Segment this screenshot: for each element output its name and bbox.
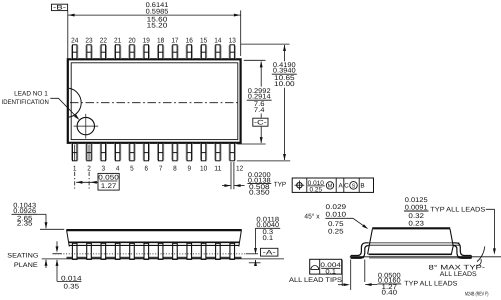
svg-text:-C-: -C- (254, 120, 267, 127)
svg-text:0.35: 0.35 (64, 283, 80, 290)
svg-text:4: 4 (116, 165, 120, 172)
svg-text:8: 8 (173, 165, 177, 172)
svg-text:13: 13 (229, 38, 236, 45)
svg-text:0.2914: 0.2914 (248, 94, 271, 101)
svg-text:0.23: 0.23 (408, 220, 424, 227)
svg-text:0.3940: 0.3940 (273, 68, 296, 75)
svg-text:0.75: 0.75 (328, 221, 344, 228)
svg-text:0.050: 0.050 (98, 175, 119, 182)
svg-text:IDENTIFICATION: IDENTIFICATION (2, 99, 49, 106)
svg-text:0.1: 0.1 (325, 269, 336, 276)
svg-text:M: M (328, 184, 333, 190)
svg-text:0.25: 0.25 (328, 229, 344, 236)
svg-text:6: 6 (145, 165, 149, 172)
svg-text:ALL LEADS: ALL LEADS (440, 271, 477, 278)
svg-text:0.0125: 0.0125 (405, 197, 428, 204)
svg-text:14: 14 (214, 38, 221, 45)
svg-text:20: 20 (128, 38, 135, 45)
svg-text:12: 12 (236, 165, 243, 172)
svg-text:S: S (352, 184, 356, 190)
svg-text:PLANE: PLANE (14, 262, 39, 269)
svg-text:5: 5 (130, 165, 134, 172)
svg-text:0.32: 0.32 (408, 213, 424, 220)
svg-text:10: 10 (200, 165, 207, 172)
svg-text:M24B (REV F): M24B (REV F) (465, 291, 489, 297)
svg-text:LEAD NO 1: LEAD NO 1 (14, 90, 48, 97)
svg-text:18: 18 (157, 38, 164, 45)
svg-text:15: 15 (200, 38, 207, 45)
svg-text:45° x: 45° x (304, 214, 320, 221)
svg-text:3: 3 (102, 165, 106, 172)
svg-text:21: 21 (114, 38, 121, 45)
svg-text:17: 17 (171, 38, 178, 45)
svg-text:1: 1 (73, 165, 77, 172)
svg-text:7: 7 (159, 165, 163, 172)
svg-text:23: 23 (85, 38, 92, 45)
svg-text:24: 24 (71, 38, 78, 45)
svg-text:A: A (338, 183, 343, 190)
svg-text:B: B (360, 183, 364, 190)
svg-text:9: 9 (187, 165, 191, 172)
svg-text:19: 19 (143, 38, 150, 45)
svg-text:SEATING: SEATING (7, 252, 38, 259)
svg-text:0.0091: 0.0091 (405, 205, 428, 212)
svg-text:0.014: 0.014 (61, 275, 82, 282)
svg-text:22: 22 (100, 38, 107, 45)
svg-text:ALL LEAD TIPS: ALL LEAD TIPS (289, 277, 343, 284)
svg-text:TYP ALL LEADS: TYP ALL LEADS (430, 207, 486, 214)
svg-text:15.20: 15.20 (147, 22, 168, 29)
svg-text:11: 11 (214, 165, 221, 172)
svg-text:0.350: 0.350 (249, 190, 270, 197)
svg-text:C: C (344, 183, 349, 190)
svg-text:-B-: -B- (53, 5, 66, 12)
svg-text:0.010: 0.010 (326, 212, 347, 219)
svg-text:TYP ALL LEADS: TYP ALL LEADS (404, 280, 458, 287)
svg-text:0.029: 0.029 (326, 204, 347, 211)
svg-text:0.25: 0.25 (310, 187, 323, 194)
svg-text:TYP: TYP (274, 182, 287, 189)
svg-text:0.1: 0.1 (263, 235, 274, 242)
svg-text:-A-: -A- (263, 250, 276, 257)
svg-text:1.27: 1.27 (101, 183, 117, 190)
svg-text:2.35: 2.35 (17, 221, 33, 228)
svg-text:0.40: 0.40 (382, 289, 398, 296)
svg-text:7.4: 7.4 (254, 107, 265, 114)
svg-text:0.5985: 0.5985 (146, 8, 169, 15)
svg-text:2: 2 (87, 165, 91, 172)
svg-text:10.00: 10.00 (274, 81, 295, 88)
svg-text:16: 16 (186, 38, 193, 45)
